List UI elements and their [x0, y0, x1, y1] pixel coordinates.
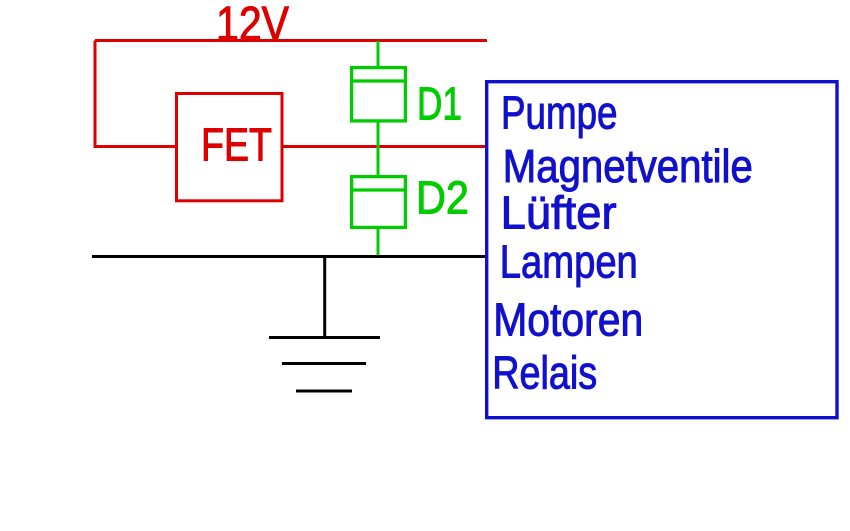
ground symbol bar 2 — [282, 362, 366, 365]
wire 12V rail (red top horizontal) — [95, 39, 487, 42]
diode D2 inner bar — [350, 188, 407, 191]
load box (blue rectangle) — [487, 82, 837, 418]
ground symbol bar 3 — [296, 390, 352, 393]
svg-text:D2: D2 — [416, 172, 469, 224]
svg-text:D1: D1 — [417, 78, 462, 130]
wire ground stub (black vertical) — [323, 257, 326, 338]
svg-text:FET: FET — [201, 119, 272, 171]
wire green from 12V rail into D1 top — [377, 41, 380, 67]
svg-text:Magnetventile: Magnetventile — [503, 140, 753, 192]
wire green from D2 bottom down to ground rail — [377, 228, 380, 256]
svg-text:Lampen: Lampen — [500, 235, 638, 287]
svg-text:Motoren: Motoren — [493, 294, 643, 346]
diode D2 box — [352, 177, 406, 228]
wire ground rail (black horizontal) — [92, 255, 487, 258]
wire green between D1 bottom and D2 top — [377, 121, 380, 176]
wire FET output to load box (red middle horizontal) — [283, 145, 487, 148]
transistor FET box — [177, 94, 283, 201]
svg-text:Relais: Relais — [492, 347, 597, 399]
wire left loop from 12V rail down to FET input — [95, 41, 176, 147]
diode D1 inner bar — [350, 79, 407, 82]
diode D1 box — [352, 68, 406, 121]
svg-text:Pumpe: Pumpe — [501, 87, 618, 139]
svg-text:Lüfter: Lüfter — [501, 187, 617, 239]
svg-text:12V: 12V — [216, 0, 289, 51]
ground symbol bar 1 — [269, 336, 380, 339]
